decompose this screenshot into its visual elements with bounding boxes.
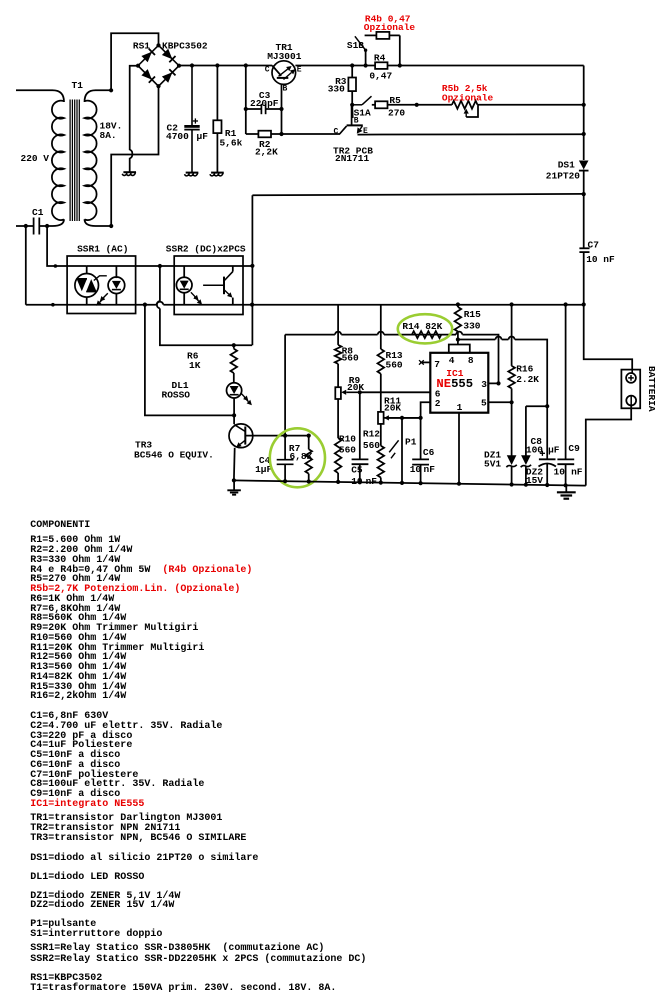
svg-text:KBPC3502: KBPC3502: [162, 41, 208, 52]
capacitor C4 labels: [255, 455, 272, 475]
resistor R4b: [365, 32, 400, 66]
wire right vertical rail top: [583, 66, 585, 161]
wire SSR2 collector riser: [251, 195, 253, 345]
resistor R13 labels: [386, 350, 403, 371]
node TR2 emitter rail junction: [582, 132, 586, 136]
bridge diode D-TR: [162, 49, 176, 63]
wire Vcc hop over R16: [508, 337, 514, 340]
node P1 tap: [400, 416, 404, 420]
capacitor C6 labels: [410, 447, 436, 475]
svg-text:nF: nF: [424, 464, 436, 475]
svg-text:SSR2 (DC)x2PCS: SSR2 (DC)x2PCS: [166, 244, 246, 255]
bridge RS1 label: [133, 41, 208, 52]
highlight ellipse around R14: [398, 314, 452, 343]
capacitor C2 plus sign: [193, 118, 198, 123]
transformer T1 label: [72, 80, 84, 91]
resistor R15: [455, 305, 462, 340]
ground bridge (curly): [122, 172, 136, 175]
resistor R5 labels: [388, 95, 405, 119]
wire Vcc line: [458, 340, 547, 407]
wire S1A junction to TR2 base: [351, 105, 354, 118]
capacitor C7 labels: [586, 240, 615, 265]
node pin5 R16 junction: [510, 400, 514, 404]
wire DL1 bottom to left riser: [145, 305, 234, 416]
node DL1 branch tap: [143, 303, 147, 307]
node R15 tap: [456, 302, 460, 306]
svg-text:3: 3: [481, 379, 487, 390]
wire mains bottom: [16, 225, 34, 227]
svg-text:R5: R5: [389, 95, 401, 106]
svg-text:4: 4: [449, 355, 455, 366]
node R7 ground: [307, 479, 311, 483]
wire pin 5 stub: [488, 401, 511, 403]
svg-text:4700: 4700: [166, 131, 189, 142]
wire battery minus: [586, 405, 631, 485]
relay SSR2 box: [174, 256, 243, 315]
relay SSR1 box: [67, 256, 136, 314]
wire secondary top lead: [85, 33, 159, 102]
IC1 name NE555: [436, 377, 473, 391]
wire R5b to right rail: [478, 104, 584, 106]
resistor R6: [231, 345, 238, 383]
wire TR1 base down: [281, 84, 283, 134]
svg-text:560: 560: [342, 353, 359, 364]
wire pin 1 to ground rail: [458, 413, 460, 484]
svg-text:2: 2: [435, 398, 441, 409]
capacitor C3: [246, 104, 282, 114]
capacitor C2 labels: [166, 122, 208, 142]
svg-text:20K: 20K: [384, 402, 401, 413]
node bridge bottom: [156, 84, 160, 88]
pin 8 label: [468, 355, 474, 366]
svg-text:2N1711: 2N1711: [335, 153, 370, 164]
svg-text:1K: 1K: [189, 360, 201, 371]
wire pin3 net down to TR3 base: [284, 335, 286, 436]
wire primary top lead: [16, 90, 64, 102]
node Vcc junction: [456, 337, 460, 341]
transformer T1 core: [70, 100, 79, 222]
svg-text:R15: R15: [464, 309, 481, 320]
capacitor C9: [557, 305, 574, 486]
node R16 tap: [510, 302, 514, 306]
resistor R1: [213, 66, 221, 173]
svg-text:100: 100: [526, 445, 543, 456]
node SSR2 input tap: [158, 264, 162, 268]
resistor R2: [246, 131, 282, 138]
svg-text:C1: C1: [32, 207, 44, 218]
svg-text:P1: P1: [405, 436, 417, 447]
resistor R2 labels: [255, 139, 278, 158]
battery plus terminal: [626, 370, 636, 383]
node R7 top: [307, 434, 311, 438]
transformer T1 secondary winding: [85, 101, 97, 220]
bridge diode D-BL: [141, 69, 155, 83]
resistor R4: [375, 62, 387, 69]
potentiometer R5b: [452, 101, 478, 117]
node C4 tap: [283, 434, 287, 438]
wire top rail bridge to TR1: [179, 65, 272, 67]
svg-text:S1B: S1B: [347, 40, 364, 51]
wire top rail R4 to right corner: [388, 65, 584, 67]
svg-text:6,8K: 6,8K: [290, 451, 313, 462]
svg-text:555: 555: [451, 377, 473, 391]
svg-text:SSR1 (AC): SSR1 (AC): [77, 244, 128, 255]
svg-text:R12: R12: [363, 429, 380, 440]
wire pin3 net horizontal: [285, 335, 498, 384]
node C4 ground: [283, 479, 287, 483]
wire primary bottom lead: [40, 219, 64, 226]
node C3 right: [279, 107, 283, 111]
transistor TR3: [229, 415, 253, 480]
wire C3R2 left vertical: [245, 66, 247, 135]
transistor TR1 labels: [267, 42, 302, 62]
capacitor C4: [277, 436, 294, 482]
svg-text:R14 82K: R14 82K: [402, 321, 442, 332]
wire pin3 hop over R15: [456, 332, 462, 335]
svg-text:560: 560: [363, 440, 380, 451]
node C5 tap: [358, 390, 362, 394]
node pin2 corner: [420, 417, 422, 419]
relay SSR2 label: [166, 244, 246, 255]
bridge rectifier RS1 outline: [138, 45, 179, 86]
circuit schematic: NE555 battery charger: [0, 0, 666, 510]
svg-text:270: 270: [388, 107, 405, 118]
svg-text:330: 330: [463, 321, 480, 332]
pushbutton P1: [389, 418, 402, 483]
svg-text:BC546 O EQUIV.: BC546 O EQUIV.: [134, 449, 214, 460]
svg-text:0,47: 0,47: [369, 71, 392, 82]
wire C1 right to triac: [47, 226, 87, 266]
svg-text:R10: R10: [339, 433, 356, 444]
node R10 ground: [336, 480, 340, 484]
wire top rail TR1 to R4: [295, 65, 375, 67]
svg-text:T1: T1: [72, 80, 84, 91]
zener DZ2: [521, 406, 548, 485]
wire R8 branch: [335, 305, 342, 388]
capacitor C8 plus: [540, 451, 545, 456]
op-amp IC1 NE555 box: [430, 353, 488, 413]
svg-text:5: 5: [481, 398, 487, 409]
trimmer R9: [335, 387, 430, 399]
node R5 wire junction: [415, 103, 419, 107]
capacitor C3 labels: [250, 90, 279, 109]
resistor R16 labels: [516, 364, 539, 386]
svg-text:C: C: [334, 128, 339, 137]
capacitor C9 labels: [554, 443, 583, 478]
node C1 right junction: [45, 224, 49, 228]
node bridge left: [136, 64, 140, 68]
transistor TR1: [265, 61, 302, 94]
resistor R4 labels: [369, 53, 392, 82]
pin 1 label: [457, 402, 463, 413]
ground TR3 (earth): [227, 480, 241, 494]
transformer T1 primary winding: [52, 101, 64, 220]
node TR3 emitter ground: [232, 478, 236, 482]
IC1 supply tab: [449, 340, 470, 353]
resistor R1 labels: [220, 128, 243, 149]
transistor TR2 labels: [333, 146, 373, 164]
wire TR1 base node to TR2 collector: [282, 133, 341, 135]
label 8A.: [100, 130, 117, 141]
node pin1 ground junction: [457, 482, 461, 486]
pin 5 label: [481, 398, 487, 409]
trimmer R9 labels: [347, 375, 364, 393]
transistor TR2: [334, 105, 369, 137]
wire R6 loop hop over rail: [157, 301, 160, 308]
wire TR3 base to R7: [245, 435, 308, 437]
pin 7 label: [434, 359, 440, 370]
LED DL1 labels: [162, 380, 191, 401]
node secondary bottom corner: [109, 224, 113, 228]
resistor R3: [348, 66, 356, 105]
svg-text:5,6k: 5,6k: [220, 138, 243, 149]
svg-text:8: 8: [468, 355, 474, 366]
node TR3 collector junction: [232, 413, 236, 417]
svg-text:C7: C7: [588, 240, 600, 251]
pin 3 label: [481, 379, 487, 390]
pin 7 stub with x mark: [419, 360, 430, 364]
svg-text:5V1: 5V1: [484, 459, 501, 470]
opto-LED SSR1: [96, 266, 125, 306]
node S1B tap: [364, 63, 368, 67]
wire mid line to SSR2: [252, 194, 583, 195]
node DZ1 ground: [510, 482, 514, 486]
wire secondary bottom lead: [85, 87, 159, 226]
wire R9 to R10: [337, 399, 339, 438]
wire pin 2 net: [384, 402, 430, 418]
pin 6 label: [435, 388, 441, 399]
node C8 top junction: [545, 404, 549, 408]
resistor R12 labels: [363, 429, 380, 452]
node secondary top corner: [109, 88, 113, 92]
wire Vcc hop over pin3: [495, 337, 501, 340]
node C6 tap: [419, 416, 423, 420]
resistor R10: [335, 438, 342, 482]
node triac top wire: [54, 264, 58, 268]
wire pin3 hop over R13: [378, 332, 384, 335]
node R12 ground: [379, 481, 383, 485]
svg-text:C9: C9: [568, 443, 580, 454]
node R6 top tap: [232, 343, 236, 347]
svg-text:330: 330: [328, 84, 345, 95]
node C5 ground: [358, 480, 362, 484]
node pin3 corner: [496, 381, 500, 385]
svg-text:C5: C5: [351, 465, 363, 476]
trimmer R11 labels: [384, 396, 401, 414]
node C6 ground: [419, 481, 423, 485]
svg-text:1: 1: [457, 402, 463, 413]
zener DZ2 labels: [526, 466, 543, 485]
node C3 left: [244, 107, 248, 111]
svg-text:C6: C6: [423, 447, 435, 458]
capacitor C1 label: [32, 207, 44, 218]
highlight ellipse around R7: [270, 428, 325, 487]
resistor R15 labels: [463, 309, 481, 332]
transistor TR3 labels: [134, 440, 214, 461]
node SSR2 collector junction: [250, 264, 254, 268]
svg-text:220pF: 220pF: [250, 98, 279, 109]
resistor R3 labels: [328, 76, 347, 94]
svg-text:Opzionale: Opzionale: [364, 22, 416, 33]
wire DS1 to C7: [583, 194, 585, 248]
ground C2 (curly): [185, 173, 199, 176]
node P1 ground: [400, 481, 404, 485]
svg-text:B: B: [283, 85, 288, 94]
svg-text:10 nF: 10 nF: [586, 254, 615, 265]
wire R11 to R12: [380, 424, 382, 446]
node mid rail dot1: [51, 303, 55, 307]
node C3 network tap: [244, 63, 248, 67]
svg-text:2.2K: 2.2K: [516, 374, 539, 385]
LED DL1: [227, 383, 252, 416]
zener DZ1 labels: [484, 450, 501, 470]
wire R13 branch: [378, 305, 385, 412]
opto-transistor SSR2: [203, 266, 233, 305]
node C2 tap: [190, 63, 194, 67]
wire long mid rail: [26, 304, 584, 306]
resistor R7: [305, 436, 312, 482]
node C1 left junction: [24, 224, 28, 228]
resistor R6 labels: [187, 350, 201, 371]
node C8 ground: [545, 483, 549, 487]
wire battery plus: [584, 305, 633, 370]
svg-text:µF: µF: [548, 445, 560, 456]
svg-text:220 V.: 220 V.: [21, 153, 55, 164]
capacitor C1: [34, 218, 40, 235]
node C9 tap: [564, 302, 568, 306]
wire ground rail: [234, 480, 586, 485]
resistor R4b labels (red): [364, 13, 416, 33]
switch S1B: [355, 36, 367, 65]
diode DS1 labels: [546, 159, 581, 181]
node R2 right / TR1 base: [279, 132, 283, 136]
wire mid rail hop: [156, 302, 163, 305]
node R6 loop tap: [250, 303, 254, 307]
label 18V.: [100, 121, 123, 132]
svg-text:µF: µF: [197, 131, 209, 142]
node R5b rail junction: [582, 103, 586, 107]
svg-text:560: 560: [386, 360, 403, 371]
bridge diode D-TL: [141, 49, 155, 63]
bridge diode D-BR: [162, 69, 176, 83]
trimmer R11: [378, 412, 421, 424]
node DS1 bottom junction: [582, 192, 586, 196]
resistor R5: [372, 101, 452, 108]
node R1 tap: [215, 63, 219, 67]
label 220 V.: [21, 153, 55, 164]
svg-text:nF: nF: [571, 466, 583, 477]
capacitor C8 labels: [526, 436, 560, 456]
pin 2 label: [435, 398, 441, 409]
capacitor C5: [352, 392, 369, 482]
node bridge right: [177, 64, 181, 68]
pin 4 label: [449, 355, 455, 366]
resistor R12: [378, 446, 385, 483]
capacitor C6: [412, 418, 429, 483]
battery connector box: [621, 370, 640, 409]
pushbutton P1 label: [405, 436, 417, 447]
svg-text:10: 10: [554, 466, 566, 477]
wire bridge left to ground: [130, 66, 138, 172]
switch S1A label: [354, 107, 371, 118]
ground R1 (curly): [210, 173, 224, 176]
resistor R16: [508, 305, 515, 403]
resistor R8 labels: [342, 346, 359, 364]
svg-text:8A.: 8A.: [100, 130, 117, 141]
svg-text:nF: nF: [366, 476, 378, 487]
svg-text:21PT20: 21PT20: [546, 171, 581, 182]
node battery plus tap: [582, 302, 586, 306]
node DZ2 ground: [524, 483, 528, 487]
node R4b right tap: [398, 63, 402, 67]
svg-text:ROSSO: ROSSO: [162, 390, 191, 401]
svg-text:10: 10: [410, 464, 422, 475]
wire pin 6 stub: [360, 391, 431, 393]
node S1A pivot: [350, 103, 354, 107]
svg-text:BATTERIA: BATTERIA: [646, 366, 657, 412]
svg-text:7: 7: [434, 359, 440, 370]
node bridge top: [156, 43, 160, 47]
resistor R10 labels: [339, 433, 356, 455]
node C9 ground: [564, 483, 568, 487]
diode DS1: [579, 161, 589, 195]
relay SSR1 label: [77, 244, 128, 255]
component list: [30, 522, 90, 530]
opto-triac SSR1: [75, 266, 107, 305]
svg-text:R4: R4: [374, 53, 386, 64]
wire led tops line: [87, 265, 253, 267]
node R3 tap: [350, 63, 354, 67]
wire TR2 emitter to right rail: [358, 133, 584, 135]
svg-text:E: E: [297, 66, 302, 75]
ground main (earth): [557, 485, 576, 498]
wire R6 loop: [160, 266, 252, 345]
svg-text:Opzionale: Opzionale: [442, 93, 494, 104]
capacitor C2: [184, 66, 199, 173]
capacitor C5 labels: [351, 465, 377, 487]
svg-text:RS1: RS1: [133, 41, 150, 52]
potentiometer R5b labels (red): [442, 83, 494, 104]
wire C1 left to rail: [25, 226, 27, 305]
switch S1A: [352, 96, 371, 105]
svg-text:C: C: [265, 66, 270, 75]
zener DZ1: [506, 402, 516, 484]
resistor R7 labels: [289, 443, 313, 462]
capacitor C7: [579, 248, 589, 304]
opto-LED SSR2: [176, 266, 202, 305]
svg-text:20K: 20K: [347, 382, 364, 393]
svg-text:R16: R16: [516, 364, 533, 375]
svg-text:S1A: S1A: [354, 107, 371, 118]
svg-text:2,2K: 2,2K: [255, 147, 278, 158]
svg-text:560: 560: [339, 444, 356, 455]
wire pin3 hop over R8: [335, 332, 341, 335]
battery minus terminal: [626, 396, 636, 406]
svg-text:DS1: DS1: [558, 159, 575, 170]
resistor R14: [412, 331, 441, 338]
switch S1B label: [347, 40, 364, 51]
capacitor C8: [539, 406, 556, 485]
IC1 label (red): [446, 368, 463, 379]
label BATTERIA: [646, 366, 657, 412]
resistor R14 label: [402, 321, 442, 332]
